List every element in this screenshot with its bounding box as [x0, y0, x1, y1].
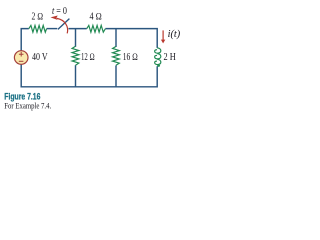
svg-text:4 Ω: 4 Ω	[90, 12, 103, 23]
svg-text:2 H: 2 H	[164, 52, 176, 63]
voltage source minus sign	[19, 60, 24, 62]
wire 16-ohm branch upper	[115, 29, 117, 47]
wire bottom loop	[21, 64, 157, 87]
resistor R 2ohm (horizontal zigzag)	[29, 25, 47, 32]
inductor L 2H (coil)	[155, 48, 161, 66]
switch arc arrowhead	[51, 16, 58, 20]
switch blade	[58, 19, 70, 30]
svg-text:12 Ω: 12 Ω	[81, 52, 95, 63]
resistor R 4ohm (horizontal zigzag)	[87, 25, 106, 32]
current i(t) arrow (red)	[162, 30, 164, 40]
switch action arc (red)	[57, 18, 68, 33]
svg-text:i(t): i(t)	[168, 29, 181, 40]
wire top left segment	[21, 29, 57, 51]
resistor R 16ohm (vertical zigzag)	[113, 46, 120, 65]
voltage source plus sign	[19, 52, 24, 57]
svg-text:40 V: 40 V	[32, 52, 48, 63]
wire 12-ohm branch upper	[75, 29, 77, 47]
wire top right segment	[69, 29, 158, 48]
wire 12-ohm branch lower	[75, 65, 77, 87]
voltage source V1 circle	[14, 51, 28, 65]
svg-text:For Example 7.4.: For Example 7.4.	[4, 100, 51, 110]
svg-text:t = 0: t = 0	[52, 6, 67, 17]
wire 16-ohm branch lower	[115, 65, 117, 86]
resistor R 12ohm (vertical zigzag)	[72, 46, 79, 65]
svg-text:2 Ω: 2 Ω	[32, 12, 44, 23]
svg-text:16 Ω: 16 Ω	[123, 52, 138, 63]
